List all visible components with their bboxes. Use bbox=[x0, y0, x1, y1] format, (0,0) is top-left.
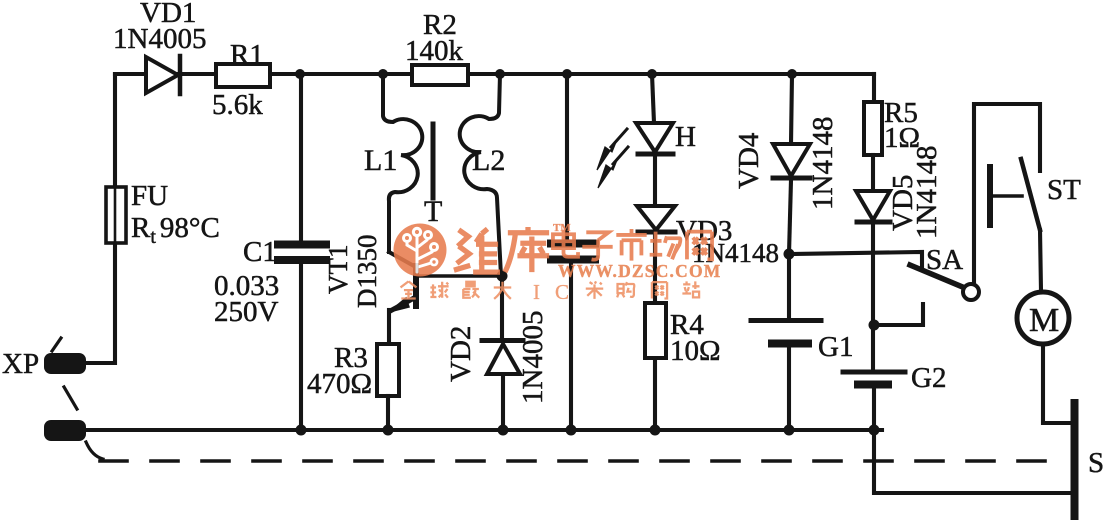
svg-text:250V: 250V bbox=[214, 296, 279, 328]
small char da bbox=[494, 282, 511, 299]
label FU bbox=[131, 180, 168, 212]
LED H light arrows bbox=[597, 129, 628, 188]
svg-text:M: M bbox=[1029, 302, 1059, 339]
label VD3 bbox=[676, 215, 732, 247]
svg-text:SA: SA bbox=[926, 244, 963, 276]
label 1ohm bbox=[884, 122, 920, 154]
diode VD4 bbox=[773, 74, 810, 254]
svg-text:C: C bbox=[555, 280, 569, 304]
resistor R2 bbox=[412, 65, 468, 85]
svg-text:R1: R1 bbox=[230, 39, 264, 71]
label VD5 (rotated) bbox=[887, 175, 919, 231]
label G1 bbox=[818, 331, 853, 363]
diode VD1 bbox=[146, 56, 180, 94]
svg-text:T: T bbox=[424, 195, 442, 228]
svg-text:VD4: VD4 bbox=[733, 132, 765, 189]
label C1 bbox=[243, 236, 277, 268]
small char quan bbox=[401, 281, 417, 298]
label 1N4005 (VD1) bbox=[113, 23, 206, 55]
www.dzsc.com bbox=[558, 261, 722, 281]
battery G2 bbox=[843, 372, 1071, 493]
svg-text:1N4148: 1N4148 bbox=[807, 117, 839, 210]
label ST bbox=[1047, 174, 1081, 206]
svg-text:L1: L1 bbox=[364, 144, 397, 177]
small char cai bbox=[586, 281, 603, 298]
node top-L2 bbox=[495, 69, 505, 79]
char zi bbox=[582, 232, 612, 259]
node bottom-C2 bbox=[566, 425, 577, 436]
diode VD2 bbox=[482, 276, 523, 430]
svg-text:1N4148: 1N4148 bbox=[911, 146, 943, 239]
svg-text:1N4005: 1N4005 bbox=[517, 311, 549, 404]
resistor R1 bbox=[216, 64, 270, 87]
svg-text:WWW.DZSC.COM: WWW.DZSC.COM bbox=[558, 261, 722, 281]
transistor VT1 bbox=[389, 252, 500, 344]
label M bbox=[1029, 302, 1059, 339]
fuse FU bbox=[106, 187, 126, 243]
node bottom-VD2 bbox=[498, 425, 509, 436]
label 1N4148 (VD4, rotated) bbox=[807, 117, 839, 210]
svg-text:I: I bbox=[533, 280, 540, 304]
label 470ohm bbox=[307, 368, 372, 400]
capacitor C2 bbox=[551, 74, 595, 430]
svg-text:10Ω: 10Ω bbox=[670, 335, 721, 367]
small char zui bbox=[462, 282, 479, 298]
label XP bbox=[2, 348, 39, 380]
TM mark bbox=[553, 222, 571, 234]
node VT1 base / VD2 top bbox=[497, 271, 508, 282]
svg-text:FU: FU bbox=[131, 180, 168, 212]
label H bbox=[675, 121, 696, 153]
contact plate S bbox=[1071, 403, 1079, 516]
node top-C2 bbox=[562, 69, 572, 79]
label VD2 (rotated) bbox=[445, 326, 477, 382]
big char ku bbox=[505, 227, 549, 272]
small char qiu bbox=[430, 282, 448, 298]
wire ST bracket bbox=[974, 104, 1040, 284]
label L1 bbox=[364, 144, 397, 177]
char chang bbox=[650, 232, 681, 260]
svg-text:5.6k: 5.6k bbox=[212, 89, 263, 121]
battery G1 bbox=[751, 254, 821, 430]
node bottom-G1 bbox=[784, 425, 795, 436]
wire SA throw contact hook bbox=[874, 304, 923, 325]
big char wei bbox=[454, 229, 500, 272]
label 5.6k bbox=[212, 89, 263, 121]
label R4 bbox=[670, 309, 704, 341]
label 10ohm bbox=[670, 335, 721, 367]
label 1N4148 (VD5, rotated) bbox=[911, 146, 943, 239]
resistor R5 bbox=[864, 74, 882, 191]
node bottom-R3 bbox=[383, 425, 394, 436]
svg-text:G1: G1 bbox=[818, 331, 853, 363]
node top-C1 bbox=[295, 69, 305, 79]
wire VD4 node to SA contact bbox=[789, 252, 922, 266]
label R3 bbox=[334, 342, 368, 374]
motor M bbox=[1017, 292, 1069, 344]
svg-text:XP: XP bbox=[2, 348, 39, 380]
wire top rail bbox=[115, 72, 874, 76]
small I C letters bbox=[533, 280, 569, 304]
inductor L2 (transformer secondary) bbox=[460, 74, 501, 276]
label 250V bbox=[214, 296, 279, 328]
node top-VD4 bbox=[787, 69, 797, 79]
label R1 bbox=[230, 39, 264, 71]
label VD4 (rotated) bbox=[733, 132, 765, 189]
label 0.033 bbox=[214, 270, 279, 302]
label VD1 bbox=[140, 0, 196, 29]
svg-text:1N4005: 1N4005 bbox=[113, 23, 206, 55]
node bottom-C1 bbox=[296, 425, 307, 436]
connector XP prong upper bbox=[44, 338, 86, 374]
node G2 branch bbox=[869, 320, 880, 331]
capacitor C1 bbox=[278, 74, 326, 430]
svg-text:H: H bbox=[675, 121, 696, 153]
diode VD3 bbox=[637, 206, 675, 303]
label T bbox=[424, 195, 442, 228]
node bottom-R4 bbox=[650, 425, 661, 436]
transformer core T bbox=[431, 124, 436, 198]
small char gou bbox=[617, 282, 634, 297]
label 1N4148 (VD3) bbox=[692, 238, 779, 268]
connector XP prong lower bbox=[44, 387, 86, 441]
label 1N4005 (VD2, rotated) bbox=[517, 311, 549, 404]
inductor L1 (transformer primary) bbox=[383, 74, 422, 252]
svg-text:Rt98°C: Rt98°C bbox=[131, 212, 220, 248]
svg-text:D1350: D1350 bbox=[352, 235, 382, 309]
LED H bbox=[636, 74, 673, 206]
svg-text:G2: G2 bbox=[911, 362, 946, 394]
char dian bbox=[553, 230, 578, 257]
svg-text:C1: C1 bbox=[243, 236, 277, 268]
resistor R4 bbox=[645, 303, 666, 430]
node VD4-SA wire bbox=[784, 249, 795, 260]
svg-text:S: S bbox=[1088, 447, 1104, 479]
svg-text:L2: L2 bbox=[472, 144, 505, 177]
svg-text:VT1: VT1 bbox=[323, 245, 353, 295]
label R2 bbox=[423, 9, 457, 41]
label SA bbox=[926, 244, 963, 276]
diode VD5 bbox=[856, 191, 890, 370]
char shi bbox=[616, 229, 646, 261]
dashed boundary line S bbox=[86, 442, 1066, 461]
svg-text:140k: 140k bbox=[405, 35, 464, 67]
svg-text:470Ω: 470Ω bbox=[307, 368, 372, 400]
svg-text:VD2: VD2 bbox=[445, 326, 477, 382]
label VT1 (rotated) bbox=[323, 245, 353, 295]
node top-H bbox=[647, 69, 657, 79]
wire ST to motor bbox=[1040, 230, 1041, 291]
node bottom-G2 bbox=[869, 425, 880, 436]
label 140k bbox=[405, 35, 464, 67]
char wang bbox=[687, 232, 712, 260]
watermark weiku logo and text bbox=[394, 222, 722, 304]
switch SA blade and pivot bbox=[910, 265, 979, 300]
label L2 bbox=[472, 144, 505, 177]
label R5 bbox=[884, 97, 918, 129]
small char zhan bbox=[682, 281, 699, 297]
label Rt 98C bbox=[131, 212, 220, 248]
resistor R3 bbox=[377, 344, 399, 430]
wire motor to S plate bbox=[1043, 344, 1071, 423]
label S bbox=[1088, 447, 1104, 479]
wire left column bbox=[85, 74, 115, 363]
small char wang2 bbox=[652, 282, 667, 298]
switch ST contact bbox=[990, 159, 1040, 230]
svg-text:ST: ST bbox=[1047, 174, 1081, 206]
label D1350 (rotated) bbox=[352, 235, 382, 309]
wire bottom rail bbox=[85, 428, 882, 432]
label G2 bbox=[911, 362, 946, 394]
node top-L1 bbox=[378, 69, 388, 79]
